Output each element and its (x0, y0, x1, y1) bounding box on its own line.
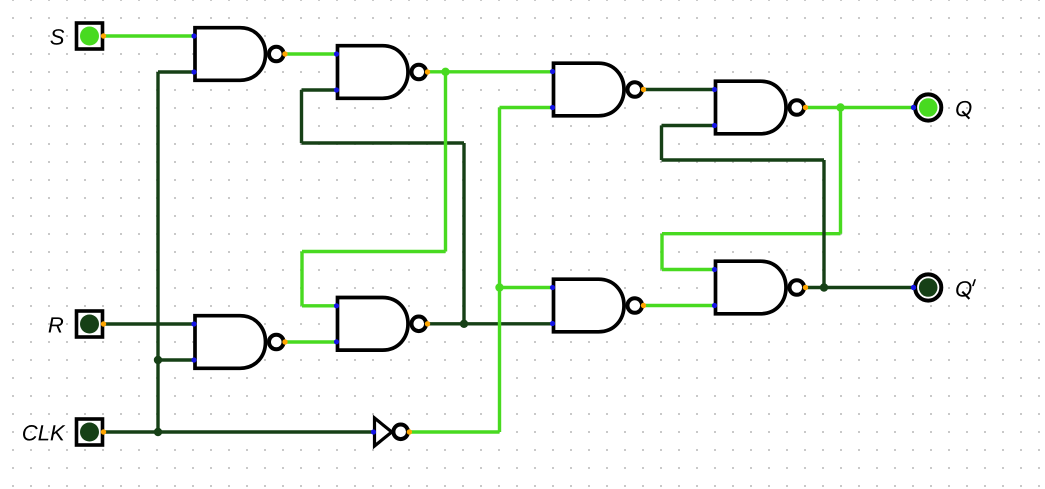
wire Q'-out net: horizontal run (662, 158, 825, 161)
input switch R (77, 311, 107, 337)
wire Q-out net: vertical riser (839, 108, 842, 234)
wire D-out net: vertical riser (462, 143, 465, 324)
NAND gate D (334, 298, 430, 351)
wire B-out net: into gate D upper input (302, 304, 338, 307)
wire B-out net: horizontal run (302, 250, 446, 253)
wire C-out net: gate C output to gate D lower input (284, 340, 338, 343)
wire D-out net: into gate B lower input (302, 88, 338, 91)
label Q' (956, 279, 976, 299)
input switch S (77, 23, 107, 49)
wire Q-out net: horizontal run (662, 232, 841, 235)
NAND gate A (191, 28, 287, 81)
wire S net: switch S to gate A upper input (104, 34, 196, 37)
wire CLKinv net: vertical riser (498, 108, 501, 433)
wire CLKinv net: into gate E lower input (500, 106, 554, 109)
wire Q'-out net: vertical riser (822, 160, 825, 288)
wire G-out net: gate G output to gate H lower input (643, 304, 716, 307)
NAND gate H (712, 261, 808, 314)
wire D-out net: gate D output to gate G lower input (427, 322, 554, 325)
wire A-out net: gate A output to gate B upper input (284, 52, 338, 55)
label CLK (23, 425, 65, 441)
junction on D-out net (460, 320, 468, 328)
wire E-out net: gate E output to gate F upper input (643, 88, 716, 91)
wire R net: switch R to gate C upper input (104, 322, 196, 325)
wire B-out net: vertical riser (444, 72, 447, 252)
NAND gate E (550, 63, 646, 116)
label Q (956, 101, 971, 119)
output Q' (911, 274, 942, 300)
label S (50, 29, 64, 45)
wire Q-out net: gate F output to output Q (805, 106, 913, 109)
wire B-out net: riser to gate D upper input row (300, 252, 303, 306)
output Q (911, 94, 942, 120)
wire Q'-out net: riser to gate F lower input row (660, 126, 663, 161)
wire CLK net: switch to inverter input (104, 430, 374, 433)
wire Q-out net: into gate H upper input (662, 268, 716, 271)
junction on Q'-out net (820, 283, 828, 291)
input switch CLK (77, 419, 107, 445)
junction on Q-out net (836, 103, 844, 111)
NAND gate F (712, 81, 808, 134)
NAND gate C (191, 316, 287, 369)
NAND gate B (334, 46, 430, 99)
wire Q'-out net: gate H output to output Q' (805, 286, 913, 289)
wire CLKinv net: branch to gate G upper input (500, 286, 554, 289)
wire D-out net: horizontal run (302, 141, 465, 144)
junction on CLK net at gate C branch (154, 356, 162, 364)
wire Q'-out net: into gate F lower input (662, 124, 716, 127)
junction on CLKinv net (495, 283, 503, 291)
junction on CLK net at switch row (154, 428, 162, 436)
wire CLKinv net: inverter output to riser (409, 430, 500, 433)
wire CLK net: branch to gate C lower input (158, 358, 195, 361)
wire B-out net: gate B output to gate E upper input (427, 70, 554, 73)
wire CLK net: branch to gate A lower input (158, 70, 195, 73)
junction on B-out net (441, 68, 449, 76)
wire CLK net: vertical riser (156, 72, 159, 432)
wire D-out net: riser to gate B lower input row (300, 90, 303, 143)
NAND gate G (550, 279, 646, 332)
label R (49, 317, 64, 332)
inverter (NOT gate) on CLK (371, 418, 412, 446)
wire Q-out net: riser to gate H upper input row (660, 234, 663, 270)
